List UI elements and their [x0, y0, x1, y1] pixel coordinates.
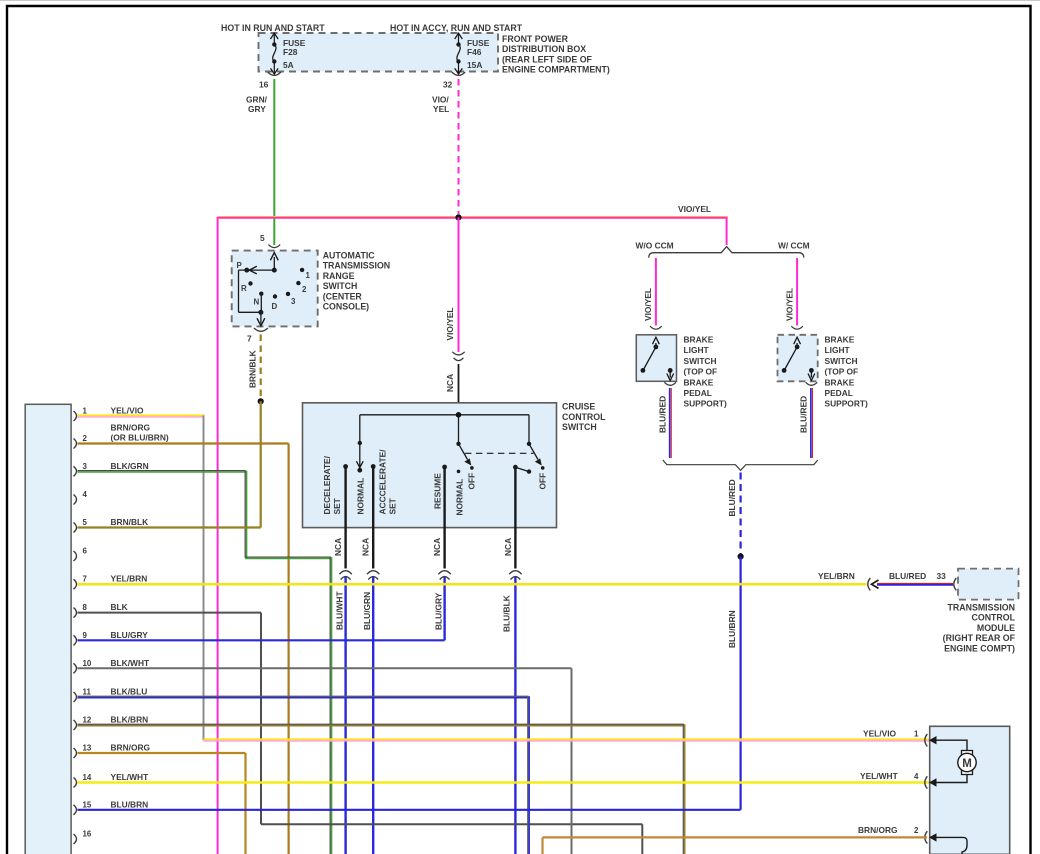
- svg-text:NORMAL: NORMAL: [356, 478, 366, 515]
- cruise switch internal bus: [360, 415, 529, 468]
- svg-text:SUPPORT): SUPPORT): [684, 399, 727, 409]
- svg-text:BRN/BLK: BRN/BLK: [111, 517, 149, 527]
- motor pin 1 arc and arrow: [925, 734, 928, 746]
- wire BLU/RED right vertical: [810, 388, 812, 458]
- svg-text:BLU/BRN: BLU/BRN: [727, 610, 737, 648]
- wire pin12 BLK/BRN horizontal: [78, 723, 685, 725]
- svg-text:BLU/GRY: BLU/GRY: [111, 630, 149, 640]
- svg-text:ACCCELERATE/: ACCCELERATE/: [378, 449, 388, 515]
- svg-text:OFF: OFF: [538, 473, 548, 490]
- svg-text:5A: 5A: [283, 60, 294, 70]
- wire pin10 BLK/WHT vertical: [571, 668, 573, 854]
- svg-text:YEL/VIO: YEL/VIO: [111, 406, 145, 416]
- inline connectors on cruise outputs: [339, 571, 521, 580]
- svg-text:LIGHT: LIGHT: [684, 345, 710, 355]
- svg-text:DECELERATE/: DECELERATE/: [322, 455, 332, 514]
- transmission control module box: [958, 569, 1019, 600]
- output blade bottom right: [515, 467, 529, 471]
- wire VIO/YEL left vertical down to page bottom: [217, 217, 219, 854]
- wire pin5 BRN/BLK horizontal: [78, 526, 261, 528]
- svg-text:3: 3: [83, 462, 88, 471]
- svg-text:NCA: NCA: [445, 374, 455, 392]
- normal set contact arrow: [356, 461, 363, 467]
- brake light switch w/ ccm box: [778, 335, 818, 382]
- svg-text:BLU/BRN: BLU/BRN: [111, 799, 149, 809]
- svg-text:BLK: BLK: [111, 602, 128, 612]
- svg-text:16: 16: [83, 830, 92, 839]
- wire GRN/GRY green vertical: [273, 79, 275, 245]
- wire pin10 BLK/WHT horizontal: [78, 667, 572, 669]
- svg-text:32: 32: [443, 80, 453, 90]
- svg-text:10: 10: [83, 659, 92, 668]
- svg-text:3: 3: [291, 297, 296, 306]
- svg-text:(RIGHT REAR OF: (RIGHT REAR OF: [943, 633, 1016, 643]
- wire VIO/YEL right branch down to CCM split: [726, 217, 728, 245]
- svg-text:OFF: OFF: [467, 473, 477, 490]
- inline connector below right brake switch: [806, 382, 818, 385]
- svg-text:(CENTER: (CENTER: [323, 291, 363, 301]
- right off switch blade: [529, 444, 538, 460]
- wire VIO/YEL solid vertical to cruise switch: [458, 217, 460, 352]
- svg-text:GRY: GRY: [248, 104, 266, 114]
- svg-text:CONTROL: CONTROL: [972, 613, 1016, 623]
- motor pin 2 arc and arrow: [925, 831, 928, 843]
- svg-text:33: 33: [937, 571, 947, 581]
- svg-text:15A: 15A: [467, 60, 482, 70]
- wire pin8 BLK horizontal: [78, 612, 262, 614]
- svg-text:DISTRIBUTION BOX: DISTRIBUTION BOX: [502, 44, 586, 54]
- blade link dashed: [465, 452, 534, 454]
- svg-text:5: 5: [83, 518, 88, 527]
- normal position dot: [457, 470, 461, 474]
- svg-text:1: 1: [83, 407, 88, 416]
- svg-text:BLK/GRN: BLK/GRN: [111, 461, 149, 471]
- svg-text:M: M: [962, 758, 972, 770]
- svg-text:BRN/BLK: BRN/BLK: [248, 350, 258, 388]
- inline connector above right brake switch: [791, 326, 803, 329]
- brake light switch w/ ccm contacts: [785, 343, 812, 378]
- wire pin3 BLK/GRN vertical to bottom: [329, 557, 331, 854]
- svg-text:YEL/BRN: YEL/BRN: [111, 574, 148, 584]
- svg-text:SET: SET: [332, 497, 342, 514]
- svg-text:CRUISE: CRUISE: [562, 402, 595, 412]
- svg-text:BLU/BLK: BLU/BLK: [501, 595, 511, 632]
- wire pin9 BLU/GRY horizontal: [78, 639, 445, 641]
- wire pin3 BLK/GRN horizontal: [78, 470, 246, 472]
- TCM pin arc: [954, 578, 957, 590]
- svg-text:D: D: [272, 302, 278, 311]
- svg-text:5: 5: [260, 233, 265, 243]
- svg-text:YEL: YEL: [433, 104, 449, 114]
- wire pin11 BLK/BLU vertical: [527, 696, 529, 854]
- svg-text:FRONT POWER: FRONT POWER: [502, 34, 569, 44]
- svg-text:BLK/BLU: BLK/BLU: [111, 687, 148, 697]
- inline connector below range switch: [254, 328, 268, 331]
- svg-text:N: N: [254, 298, 260, 307]
- wire pin1 YEL/VIO vertical run (gray): [203, 415, 205, 740]
- wire pin13 BRN/ORG vertical: [244, 753, 246, 854]
- svg-text:1: 1: [306, 271, 311, 280]
- svg-text:HOT IN ACCY, RUN AND START: HOT IN ACCY, RUN AND START: [390, 23, 523, 33]
- svg-text:BRN/ORG: BRN/ORG: [858, 825, 898, 835]
- CCM split bracket: [649, 247, 804, 258]
- svg-text:SWITCH: SWITCH: [323, 281, 358, 291]
- svg-text:VIO/YEL: VIO/YEL: [678, 204, 711, 214]
- svg-text:BLU/RED: BLU/RED: [727, 479, 737, 516]
- svg-text:(TOP OF: (TOP OF: [684, 367, 718, 377]
- svg-text:BLU/RED: BLU/RED: [658, 396, 668, 433]
- fuse F28 5A: [273, 34, 276, 73]
- motor pin 4 arc and arrow: [925, 776, 928, 788]
- svg-text:LIGHT: LIGHT: [825, 345, 851, 355]
- inline connector on cruise feed: [452, 352, 464, 361]
- svg-text:VIO/: VIO/: [432, 95, 449, 105]
- brake light switch w/o ccm contacts: [644, 343, 671, 378]
- svg-text:BLU/WHT: BLU/WHT: [335, 591, 345, 630]
- svg-text:BLK/BRN: BLK/BRN: [111, 715, 149, 725]
- inline connector to TCM harness: [868, 578, 871, 590]
- svg-text:SWITCH: SWITCH: [684, 356, 717, 366]
- motor symbol M: [962, 751, 973, 756]
- svg-text:YEL/BRN: YEL/BRN: [818, 571, 855, 581]
- svg-text:7: 7: [247, 334, 252, 344]
- svg-text:PEDAL: PEDAL: [825, 388, 853, 398]
- accelerate/set contact: [371, 464, 376, 469]
- svg-text:7: 7: [83, 575, 88, 584]
- svg-text:ENGINE COMPARTMENT): ENGINE COMPARTMENT): [502, 65, 610, 75]
- svg-text:15: 15: [83, 800, 92, 809]
- pin numbers: [83, 407, 92, 839]
- svg-text:NCA: NCA: [333, 538, 343, 556]
- svg-text:P: P: [237, 261, 242, 270]
- svg-text:16: 16: [259, 80, 269, 90]
- svg-text:2: 2: [914, 826, 919, 835]
- svg-text:PEDAL: PEDAL: [684, 388, 712, 398]
- svg-text:NCA: NCA: [432, 538, 442, 556]
- center off switch blade: [459, 444, 468, 460]
- cruise control switch box: [303, 403, 557, 528]
- svg-text:BLU/GRN: BLU/GRN: [362, 592, 372, 630]
- wire pin8 BLK horizontal second: [261, 823, 642, 825]
- svg-text:YEL/WHT: YEL/WHT: [111, 772, 150, 782]
- svg-text:(TOP OF: (TOP OF: [825, 367, 859, 377]
- fuse box: front power distribution box: [259, 33, 499, 72]
- wire VIO/YEL horizontal bus with yellow stripe: [218, 216, 728, 218]
- cruise bus junction node: [456, 412, 462, 418]
- svg-text:AUTOMATIC: AUTOMATIC: [323, 251, 376, 261]
- svg-text:SUPPORT): SUPPORT): [825, 399, 868, 409]
- wire pin1 YEL/VIO horizontal to motor: [204, 738, 930, 740]
- fuse F46 15A: [457, 34, 460, 73]
- left connector module box: [25, 404, 71, 854]
- svg-text:13: 13: [83, 744, 92, 753]
- svg-text:F28: F28: [283, 47, 298, 57]
- top window edge line: [0, 0, 1040, 2]
- svg-text:BLU/GRY: BLU/GRY: [434, 592, 444, 630]
- wire pin12 BLK/BRN vertical: [682, 724, 684, 854]
- svg-text:BRN/ORG: BRN/ORG: [111, 743, 151, 753]
- svg-text:2: 2: [83, 434, 88, 443]
- inline connector below left brake switch: [664, 382, 676, 385]
- motor internal wire pin4: [936, 775, 967, 783]
- svg-text:12: 12: [83, 716, 92, 725]
- svg-text:BLU/RED: BLU/RED: [799, 396, 809, 433]
- wire VIO/YEL w/o ccm vertical: [655, 258, 657, 326]
- svg-text:BRN/ORG: BRN/ORG: [111, 423, 151, 433]
- wire pin14 YEL/WHT horizontal: [78, 781, 930, 784]
- wire pin15 BLU/BRN horizontal: [78, 809, 741, 811]
- wire NCA into cruise switch: [458, 364, 460, 415]
- svg-text:NCA: NCA: [503, 538, 513, 556]
- svg-text:YEL/VIO: YEL/VIO: [863, 729, 897, 739]
- svg-text:(REAR LEFT SIDE OF: (REAR LEFT SIDE OF: [502, 54, 593, 64]
- svg-text:W/ CCM: W/ CCM: [778, 241, 810, 251]
- svg-text:F46: F46: [467, 47, 482, 57]
- svg-text:4: 4: [914, 772, 919, 781]
- svg-text:RESUME: RESUME: [433, 473, 443, 509]
- svg-text:W/O CCM: W/O CCM: [636, 241, 674, 251]
- svg-text:14: 14: [83, 773, 92, 782]
- svg-text:9: 9: [83, 631, 88, 640]
- svg-text:NCA: NCA: [361, 538, 371, 556]
- svg-text:CONTROL: CONTROL: [562, 412, 606, 422]
- wire BLU/BLK vertical: [514, 577, 516, 854]
- wire pin8 BLK vertical: [260, 613, 262, 825]
- wire BLU/BRN vertical to row 15: [739, 557, 741, 810]
- svg-text:GRN/: GRN/: [246, 95, 268, 105]
- svg-text:NORMAL: NORMAL: [455, 479, 465, 516]
- cruise output wires NCA black: [346, 467, 516, 569]
- junction node at fuse F46 feed: [455, 214, 461, 220]
- svg-text:VIO/YEL: VIO/YEL: [643, 288, 653, 321]
- resume contact: [442, 465, 447, 470]
- svg-text:1: 1: [914, 730, 919, 739]
- svg-text:MODULE: MODULE: [977, 623, 1015, 633]
- svg-text:BRAKE: BRAKE: [684, 377, 714, 387]
- wire BLU/GRN vertical: [372, 577, 374, 854]
- motor internal wire pin2: [936, 837, 967, 854]
- svg-text:VIO/YEL: VIO/YEL: [784, 288, 794, 321]
- wire BRN/ORG from bottom to motor pin2: [541, 837, 543, 854]
- brake light switch w/o ccm box: [636, 335, 676, 382]
- svg-text:HOT IN RUN AND START: HOT IN RUN AND START: [221, 23, 325, 33]
- wire pin2 BRN/ORG vertical: [288, 444, 290, 854]
- svg-text:BRAKE: BRAKE: [825, 377, 855, 387]
- svg-text:RANGE: RANGE: [323, 271, 355, 281]
- wire pin8 BLK vertical to bottom: [641, 824, 643, 854]
- svg-text:YEL/WHT: YEL/WHT: [860, 771, 899, 781]
- motor internal wire pin1: [936, 740, 967, 750]
- svg-text:SET: SET: [388, 497, 398, 514]
- wire pin3 BLK/GRN vertical: [244, 471, 246, 558]
- wire BLU/WHT vertical: [344, 577, 346, 854]
- svg-text:TRANSMISSION: TRANSMISSION: [948, 603, 1015, 613]
- range switch internals: [239, 257, 275, 324]
- wire pin3 BLK/GRN horizontal second: [245, 556, 331, 558]
- svg-text:CONSOLE): CONSOLE): [323, 302, 369, 312]
- svg-text:(OR BLU/BRN): (OR BLU/BRN): [111, 433, 169, 443]
- svg-text:BRAKE: BRAKE: [684, 335, 714, 345]
- wire pin1 YEL/VIO horizontal: [78, 414, 205, 416]
- pin wire name labels: [111, 406, 169, 810]
- splice node on BRN/BLK: [258, 398, 264, 404]
- svg-text:4: 4: [83, 490, 88, 499]
- range switch position contacts: [300, 268, 304, 272]
- inline connector above left brake switch: [650, 326, 662, 329]
- pin terminal arcs: [74, 411, 77, 844]
- wire VIO/YEL magenta dashed vertical: [458, 79, 460, 214]
- cruise servo motor box: [930, 726, 1010, 854]
- svg-text:BLK/WHT: BLK/WHT: [111, 658, 150, 668]
- wire BLU/RED left vertical: [669, 388, 671, 458]
- automatic transmission range switch box: [232, 251, 318, 327]
- wire BRN/BLK dashed vertical: [260, 335, 262, 399]
- svg-text:2: 2: [302, 285, 307, 294]
- wire BLU/GRY vertical to pin 9: [443, 577, 445, 640]
- decelerate/set contact: [343, 464, 348, 469]
- wire BLU/RED to TCM: [877, 583, 953, 585]
- wire BLU/RED dashed vertical below merge: [739, 473, 741, 555]
- svg-text:BLU/RED: BLU/RED: [889, 571, 926, 581]
- svg-text:ENGINE COMPT): ENGINE COMPT): [944, 643, 1015, 653]
- svg-text:11: 11: [83, 688, 92, 697]
- splice node on BLU wire: [738, 553, 744, 559]
- svg-text:R: R: [241, 284, 247, 293]
- wire pin7 YEL/BRN horizontal: [78, 583, 867, 586]
- merge bracket below brake switches: [663, 460, 818, 470]
- svg-text:SWITCH: SWITCH: [825, 356, 858, 366]
- wire pin2 BRN/ORG horizontal: [78, 442, 289, 444]
- wire pin13 BRN/ORG horizontal: [78, 752, 246, 754]
- svg-text:BRAKE: BRAKE: [825, 335, 855, 345]
- wire BRN/BLK solid vertical to pin 5: [260, 401, 262, 527]
- svg-text:8: 8: [83, 603, 88, 612]
- svg-text:6: 6: [83, 547, 88, 556]
- wire VIO/YEL w/ ccm vertical: [796, 258, 798, 326]
- svg-text:SWITCH: SWITCH: [562, 422, 597, 432]
- svg-text:TRANSMISSION: TRANSMISSION: [323, 261, 390, 271]
- inline connector above range switch: [268, 245, 280, 248]
- wire pin11 BLK/BLU horizontal: [78, 695, 529, 697]
- svg-text:VIO/YEL: VIO/YEL: [445, 307, 455, 340]
